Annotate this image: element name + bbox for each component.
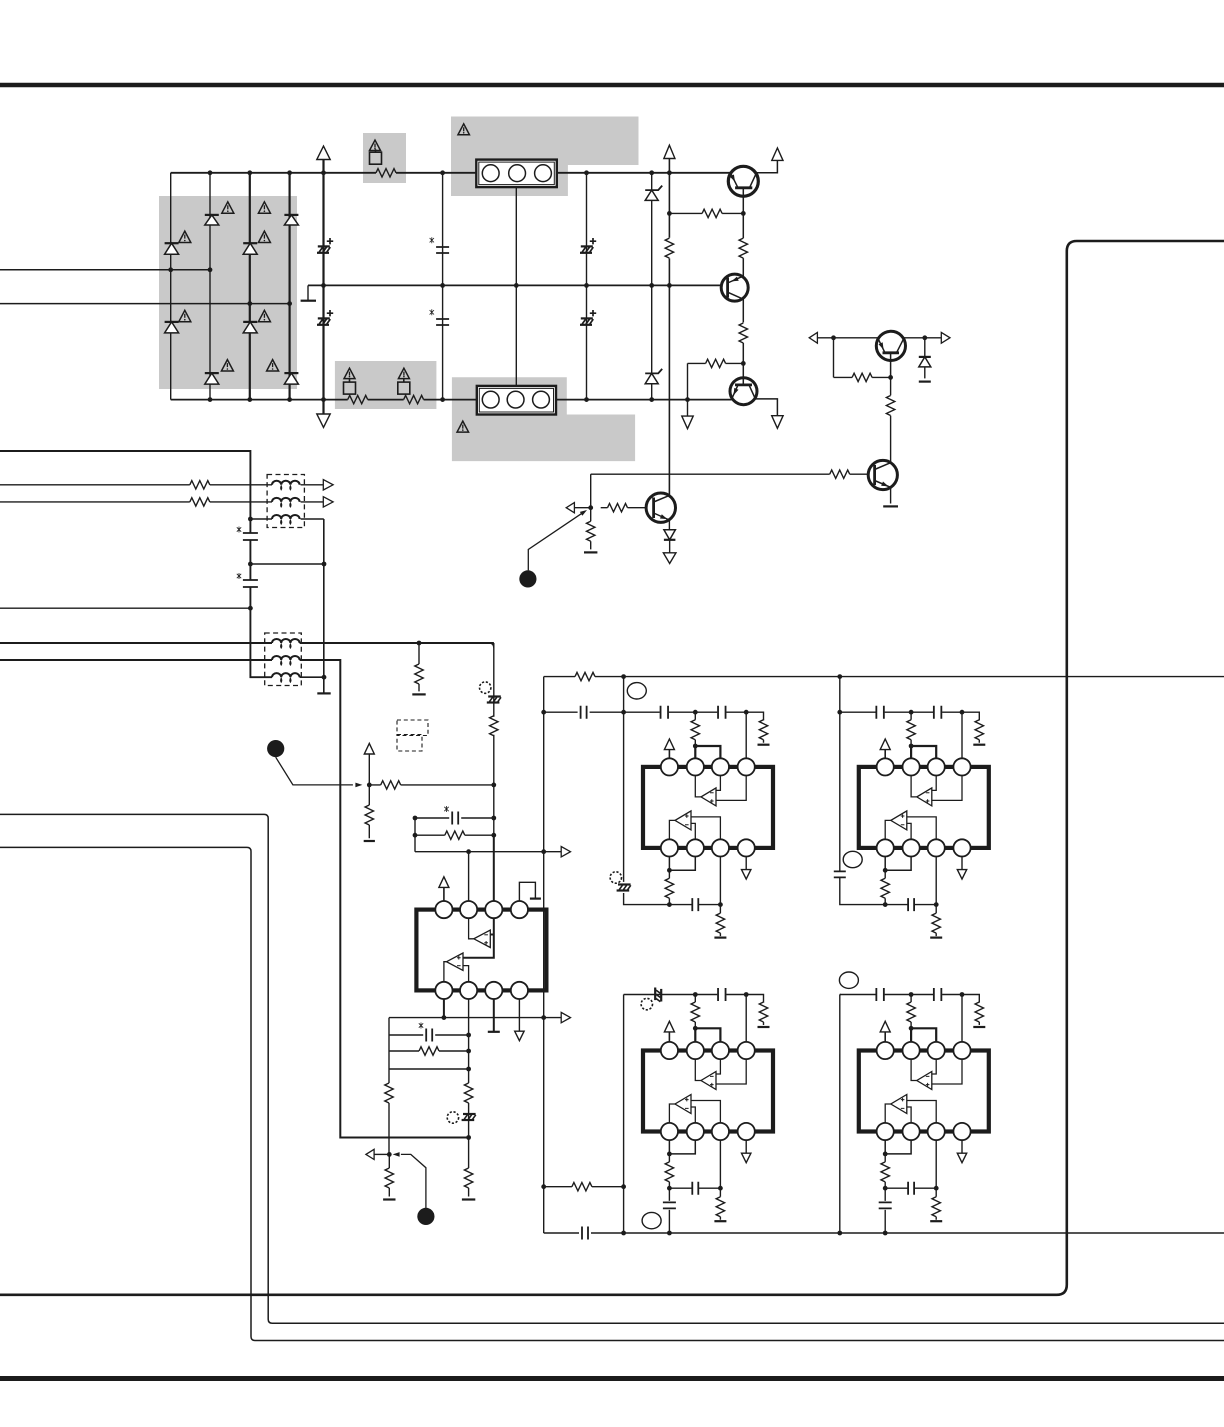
shaded region: connector CN901 warning area	[451, 117, 639, 197]
junction	[934, 902, 939, 907]
wire: U4 bottom pins 1-2 join	[669, 1140, 695, 1154]
signal arrow (right)	[561, 1012, 570, 1022]
wire	[601, 507, 646, 509]
wire: block B input row stub from rail	[840, 711, 841, 713]
wire: row y=1069	[389, 1068, 469, 1070]
wire: U3b output to bottom pin1	[885, 820, 891, 839]
wire	[668, 750, 670, 759]
wire: U5 bottom pins 1-2 join	[885, 1140, 911, 1154]
junction	[960, 992, 965, 997]
junction	[909, 992, 914, 997]
wire	[368, 754, 370, 838]
junction	[831, 335, 836, 340]
wire: block B left rail with series cap	[840, 677, 885, 905]
resistor R925 (below VR3 node)	[388, 1154, 390, 1196]
zener diode D909	[645, 186, 662, 191]
junction	[584, 170, 589, 175]
wire: Q5 base resistor branch	[834, 338, 891, 378]
wire	[742, 343, 744, 363]
wire: Q6 emitter to ground bar	[890, 487, 892, 503]
wire: U5 input row	[840, 995, 980, 1003]
wire: U1b inverting input to bottom pin2	[463, 966, 469, 982]
marker circle	[641, 998, 652, 1009]
wire	[742, 213, 744, 276]
shaded region: fusible resistor R901 warning area	[363, 133, 406, 183]
reference bubble (block C)	[642, 1212, 661, 1228]
junction	[693, 1026, 698, 1031]
inductor L902a	[272, 639, 300, 643]
inductor block L902 dashed box	[265, 633, 302, 686]
op-amp U2a	[701, 788, 716, 806]
wire: U3 input row	[840, 712, 980, 720]
junction	[417, 641, 422, 646]
ground arrow	[742, 1153, 751, 1163]
warning mark	[457, 421, 469, 432]
wire: input row y=608	[0, 607, 250, 609]
junction	[718, 902, 723, 907]
wire: signal row y=660	[0, 660, 469, 1138]
wire	[884, 750, 886, 759]
junction	[584, 283, 589, 288]
wire: U5b output to bottom pin1	[885, 1104, 891, 1123]
junction	[883, 868, 888, 873]
capacitor C901 (electrolytic)	[318, 245, 330, 247]
junction	[621, 674, 626, 679]
reference bubble (block B)	[843, 851, 862, 867]
fusible resistor square symbol	[344, 382, 356, 394]
resistor (U5 feedback)	[884, 1154, 886, 1188]
wire: U4 bias L to pins 2/3 (thick)	[695, 1028, 720, 1041]
zener diode D910	[645, 369, 662, 374]
supply arrow +B	[317, 146, 330, 159]
ground bar	[462, 1198, 475, 1200]
top page border line	[0, 83, 1224, 87]
ground arrow below bottom rail	[687, 400, 689, 417]
wire: U2b inverting input to bottom pin2	[691, 823, 695, 839]
resistor R924 (x=389 rail)	[385, 1083, 393, 1103]
wire: smoothing cap column	[442, 173, 444, 400]
diode D905	[243, 242, 257, 244]
wire: bridge column 3	[249, 173, 251, 400]
bottom page border line	[0, 1376, 1224, 1381]
op-amp IC U1 package	[416, 910, 546, 991]
junction	[466, 1135, 471, 1140]
diode D904	[165, 321, 179, 323]
op-amp U1b	[447, 953, 464, 970]
junction	[934, 1186, 939, 1191]
wire: U1 pin3 to U1a inverting input and U1b non-inverting	[463, 918, 494, 958]
diode D912 (Q4 emitter)	[668, 520, 670, 530]
wire: rectifier bottom rail -	[171, 399, 732, 401]
resistor R920	[445, 831, 465, 839]
wire: U2 input row	[624, 712, 764, 720]
junction	[909, 744, 914, 749]
wire: U5 feedback row with cap	[885, 1187, 936, 1189]
op-amp U5a	[917, 1072, 932, 1090]
capacitor (U2 feedback)	[692, 898, 698, 911]
resistor R909	[852, 373, 872, 381]
junction	[413, 833, 418, 838]
ground bar	[584, 551, 597, 553]
wire: U2 feedback row with cap	[669, 904, 720, 906]
junction	[514, 283, 519, 288]
wire: block D left rail	[839, 995, 841, 1234]
ground bar	[758, 1026, 770, 1028]
junction	[888, 375, 893, 380]
wire: U4a output to pin2	[695, 1059, 701, 1080]
wire: U3 pin4 stem	[961, 712, 963, 759]
wire: U1a output to pin2	[469, 918, 474, 939]
wire: U4 input row	[624, 995, 764, 1003]
junction	[321, 170, 326, 175]
junction	[649, 397, 654, 402]
wire: U4a inverting input from pin3	[716, 1059, 720, 1074]
no-connect hatch mark	[617, 885, 631, 891]
wire: base feed resistor row	[669, 212, 743, 214]
wire: U3 pin4 to ground arrow	[961, 857, 963, 870]
wire: block D input row start corner	[840, 994, 841, 996]
resistor R913 (Q4 base)	[608, 504, 628, 512]
wire: U4b output to bottom pin1	[669, 1104, 675, 1123]
wire: U4b inverting input to bottom pin2	[691, 1107, 695, 1123]
junction	[667, 1186, 672, 1191]
capacitor C911	[581, 706, 587, 719]
resistor R926	[575, 672, 595, 680]
warning mark	[398, 368, 409, 378]
wire	[443, 887, 445, 901]
wire: U3b non-inverting input to bottom pin3	[907, 817, 936, 839]
fusible resistor R901	[376, 169, 396, 177]
warning mark	[258, 202, 270, 213]
ground arrow	[772, 416, 783, 429]
junction	[693, 992, 698, 997]
junction	[744, 992, 749, 997]
potentiometer VR1 wiper	[580, 510, 587, 516]
junction	[248, 606, 253, 611]
capacitor (U4 feedback)	[692, 1182, 698, 1195]
resistor R916 (y=643 to ground)	[418, 643, 420, 691]
capacitor (U4 input)	[718, 988, 726, 1001]
junction	[413, 816, 418, 821]
capacitor C905 (electrolytic)	[581, 245, 593, 247]
capacitor C904	[436, 319, 449, 325]
wire: regulator column	[668, 159, 670, 496]
wire: Q3 base resistor row	[688, 363, 744, 399]
junction	[909, 710, 914, 715]
junction	[248, 562, 253, 567]
ground bar	[758, 744, 770, 746]
fusible resistor square symbol	[398, 382, 410, 394]
resistor R911	[830, 470, 850, 478]
warning mark	[258, 231, 270, 242]
wire: U1 pin2b rail down	[468, 999, 470, 1197]
capacitor (U5 output coupling)	[884, 1188, 886, 1233]
warning mark	[370, 140, 381, 150]
resistor R910 (Q5 collector)	[890, 377, 892, 462]
junction	[883, 1152, 888, 1157]
junction	[621, 1231, 626, 1236]
signal arrow (left)	[566, 503, 574, 513]
wire: U1 pin3 stem (thick)	[493, 835, 495, 901]
resistor R908	[706, 359, 726, 367]
junction	[322, 562, 327, 567]
junction	[667, 868, 672, 873]
connector CN901	[476, 160, 557, 188]
warning mark	[344, 368, 355, 378]
capacitor C907	[243, 533, 258, 540]
capacitor (U5 feedback)	[908, 1182, 914, 1195]
ground bar	[714, 1220, 726, 1222]
potentiometer VR1 knob dot	[519, 570, 536, 587]
supply arrow at U4 pin1	[664, 1021, 674, 1032]
ground bar	[412, 693, 425, 695]
wire: x=324 vertical to chassis bar	[323, 519, 325, 693]
resistor (U3 input shunt)	[978, 720, 980, 743]
warning mark	[179, 231, 191, 242]
supply arrow at U3 pin1	[880, 739, 890, 750]
shaded region: connector CN902 warning area	[452, 377, 635, 461]
signal arrow (left)	[366, 1149, 374, 1159]
op-amp U2b	[675, 811, 691, 830]
op-amp U1a	[474, 930, 491, 947]
capacitor C908	[243, 580, 258, 587]
wire: U1 bottom pin4 to ground arrow	[518, 999, 520, 1031]
junction	[621, 710, 626, 715]
op-amp U3b	[891, 811, 907, 830]
wire: bridge column 4	[289, 173, 291, 400]
transistor Q4	[646, 493, 675, 522]
op-amp U5b	[891, 1095, 907, 1114]
op-amp U3a	[917, 788, 932, 806]
warning mark	[258, 310, 270, 321]
junction	[837, 710, 842, 715]
supply arrow at U5 pin1	[880, 1021, 890, 1032]
wire: x=389 feedback rail	[388, 1018, 390, 1155]
warning mark	[179, 310, 191, 321]
wire: U5a non-inverting input from pin4	[932, 1059, 962, 1084]
resistor (U4 to ground)	[719, 1188, 721, 1220]
capacitor (U3 feedback)	[908, 898, 914, 911]
wire: U3 bias L to pins 2/3 (thick)	[911, 746, 936, 759]
junction	[321, 397, 326, 402]
wire: U2 bottom pins 1-2 join	[669, 857, 695, 871]
potentiometer VR3 node	[387, 1152, 392, 1157]
junction	[466, 849, 471, 854]
wire: Q2 collector down	[742, 299, 744, 322]
wire: resistor row y=1186.7 to block C	[544, 1186, 624, 1188]
wire: bottom bus y=1233 with series cap	[544, 1232, 1224, 1234]
wire: trunk from left input	[0, 451, 250, 519]
wire	[884, 1032, 886, 1041]
wire: block A left rail	[624, 677, 670, 905]
op-amp U4a	[701, 1072, 716, 1090]
wire: x=543.7 vertical feed	[543, 677, 545, 1233]
marker circle	[447, 1112, 458, 1123]
junction	[667, 283, 672, 288]
wire: U4 feedback row with cap	[669, 1187, 720, 1189]
wire	[924, 367, 926, 379]
wire: U4 pin4 to ground arrow	[745, 1140, 747, 1153]
wire: U4 pin3 stem	[719, 1140, 721, 1188]
junction	[837, 674, 842, 679]
resistor (U5 input shunt)	[978, 1002, 980, 1025]
transistor Q5	[876, 331, 905, 360]
wire: x=494 column from y=643	[488, 643, 494, 835]
wire: signal row y=643	[0, 642, 494, 644]
wire: trunk through caps	[249, 519, 251, 608]
warning mark	[222, 202, 234, 213]
marker circle	[610, 872, 621, 883]
diode D908	[284, 372, 298, 374]
junction	[541, 710, 546, 715]
capacitor C909	[452, 812, 458, 825]
junction	[287, 170, 292, 175]
wire: U1 bottom pin3 stem to bar ground	[493, 999, 495, 1032]
wire: block C input row start corner	[623, 994, 625, 996]
fusible resistor R903	[404, 395, 424, 403]
capacitor (U5 input 2)	[934, 988, 942, 1001]
resistor R921	[419, 1047, 439, 1055]
junction	[208, 267, 213, 272]
transistor Q3	[730, 378, 757, 405]
wire: block C left rail	[623, 995, 625, 1234]
resistor R918 (VR2 node right)	[369, 784, 494, 786]
capacitor (U4 output coupling)	[668, 1188, 670, 1233]
junction	[922, 335, 927, 340]
diode D906	[243, 321, 257, 323]
junction	[491, 833, 496, 838]
capacitor (U2 input 1)	[661, 706, 669, 719]
shaded region: fusible resistors R902/R903 warning area	[335, 361, 437, 409]
wire	[574, 507, 590, 509]
wire: U2a non-inverting input from pin4	[716, 776, 746, 801]
wire: rectifier top rail +	[171, 172, 732, 174]
junction	[247, 170, 252, 175]
capacitor C912	[582, 1227, 588, 1240]
capacitor C902 (electrolytic)	[318, 317, 330, 319]
wire: U4 pin4 stem	[745, 995, 747, 1042]
ground bar	[714, 936, 726, 938]
wire	[374, 1153, 389, 1155]
wire: U5 pin4 stem	[961, 995, 963, 1042]
wire: feedback resistor row y=1051	[389, 1050, 469, 1052]
no-connect hatch mark	[487, 697, 501, 703]
wire: U2a output to pin2	[695, 776, 701, 797]
supply arrow above VR2 node	[364, 743, 374, 754]
wire: U5 pin4 to ground arrow	[961, 1140, 963, 1153]
junction	[883, 1231, 888, 1236]
wire: U2b output to bottom pin1	[669, 820, 675, 839]
ground bar	[919, 381, 931, 383]
potentiometer VR3 knob dot	[417, 1208, 434, 1225]
wire: output row y=851.7 with arrow	[415, 851, 561, 853]
resistor R923	[464, 1168, 472, 1188]
warning mark	[221, 360, 233, 371]
op-amp IC U5 package	[859, 1051, 989, 1132]
wire: bridge column 1	[170, 173, 172, 400]
transistor Q6	[868, 460, 897, 489]
capacitor (U5 input 1)	[876, 988, 884, 1001]
op-amp U4b	[675, 1095, 691, 1114]
junction	[685, 397, 690, 402]
potentiometer VR2 wiper	[276, 757, 353, 785]
junction	[667, 211, 672, 216]
warning mark	[267, 360, 279, 371]
capacitor C903	[436, 247, 449, 253]
wire: U3a inverting input from pin3	[932, 776, 936, 791]
ground arrow	[957, 1153, 966, 1163]
diode D901	[205, 214, 219, 216]
resistor R905	[702, 209, 722, 217]
ground bar	[973, 1026, 985, 1028]
wire: U3 pin3 stem	[935, 857, 937, 905]
transistor Q2	[721, 274, 748, 301]
junction	[321, 283, 326, 288]
signal arrow (right)	[323, 497, 333, 507]
wire: U2b non-inverting input to bottom pin3	[691, 817, 720, 839]
wire: Q6 base row from VR node	[591, 473, 869, 475]
wire: U1b output to bottom pin1	[444, 962, 447, 982]
marker circle	[480, 682, 491, 693]
junction	[440, 397, 445, 402]
wire: +B supply column	[322, 160, 324, 415]
junction	[649, 170, 654, 175]
resistor R907 (Q2 emitter)	[739, 323, 747, 343]
ground arrow	[515, 1031, 524, 1041]
wire: CN901 center pin to mid rail	[515, 187, 517, 285]
junction	[883, 902, 888, 907]
resistor R906 (Q1 base-emitter)	[739, 238, 747, 258]
wire: input row 1 with resistor	[0, 484, 323, 486]
junction	[491, 783, 496, 788]
wire: U2 pin4 stem	[745, 712, 747, 759]
junction VR2 node	[367, 783, 372, 788]
inductor block L901 dashed box	[267, 475, 304, 528]
junction	[287, 397, 292, 402]
wire: U5b non-inverting input to bottom pin3	[907, 1101, 936, 1123]
junction	[837, 1231, 842, 1236]
junction	[883, 1186, 888, 1191]
op-amp IC U2 package	[643, 767, 773, 848]
junction	[649, 283, 654, 288]
shaded region: bridge rectifier warning area	[159, 196, 297, 389]
resistor (U2 input shunt)	[763, 720, 765, 743]
junction	[621, 1184, 626, 1189]
junction	[440, 170, 445, 175]
potentiometer VR3 wiper	[393, 1152, 400, 1157]
no-connect hatch mark	[462, 1114, 476, 1120]
wire: trunk to lower coil	[250, 608, 272, 677]
bus wire loop A (left edge y=814 to bottom y=1323)	[0, 814, 1224, 1323]
warning mark	[458, 124, 470, 135]
wire: Q3 right to ground arrow	[755, 399, 777, 416]
resistor (U4 pin2 bias)	[694, 995, 696, 1029]
resistor (U5 to ground)	[935, 1188, 937, 1220]
ground bar	[883, 505, 898, 507]
wire: U2a inverting input from pin3	[716, 776, 720, 791]
diode D902	[205, 372, 219, 374]
wire: feedback resistor row y=835	[415, 818, 494, 852]
diode D911	[924, 338, 926, 357]
resistor R904	[665, 238, 673, 258]
resistor R927	[572, 1183, 592, 1191]
wire: corner y=643 into x=494	[489, 643, 494, 648]
bus wire loop B (left edge y=847 to bottom y=1340)	[0, 847, 1224, 1340]
inductor L901b	[272, 498, 300, 502]
supply arrow -B	[317, 414, 330, 427]
junction	[667, 170, 672, 175]
chassis ground stub at mid rail	[307, 285, 309, 300]
